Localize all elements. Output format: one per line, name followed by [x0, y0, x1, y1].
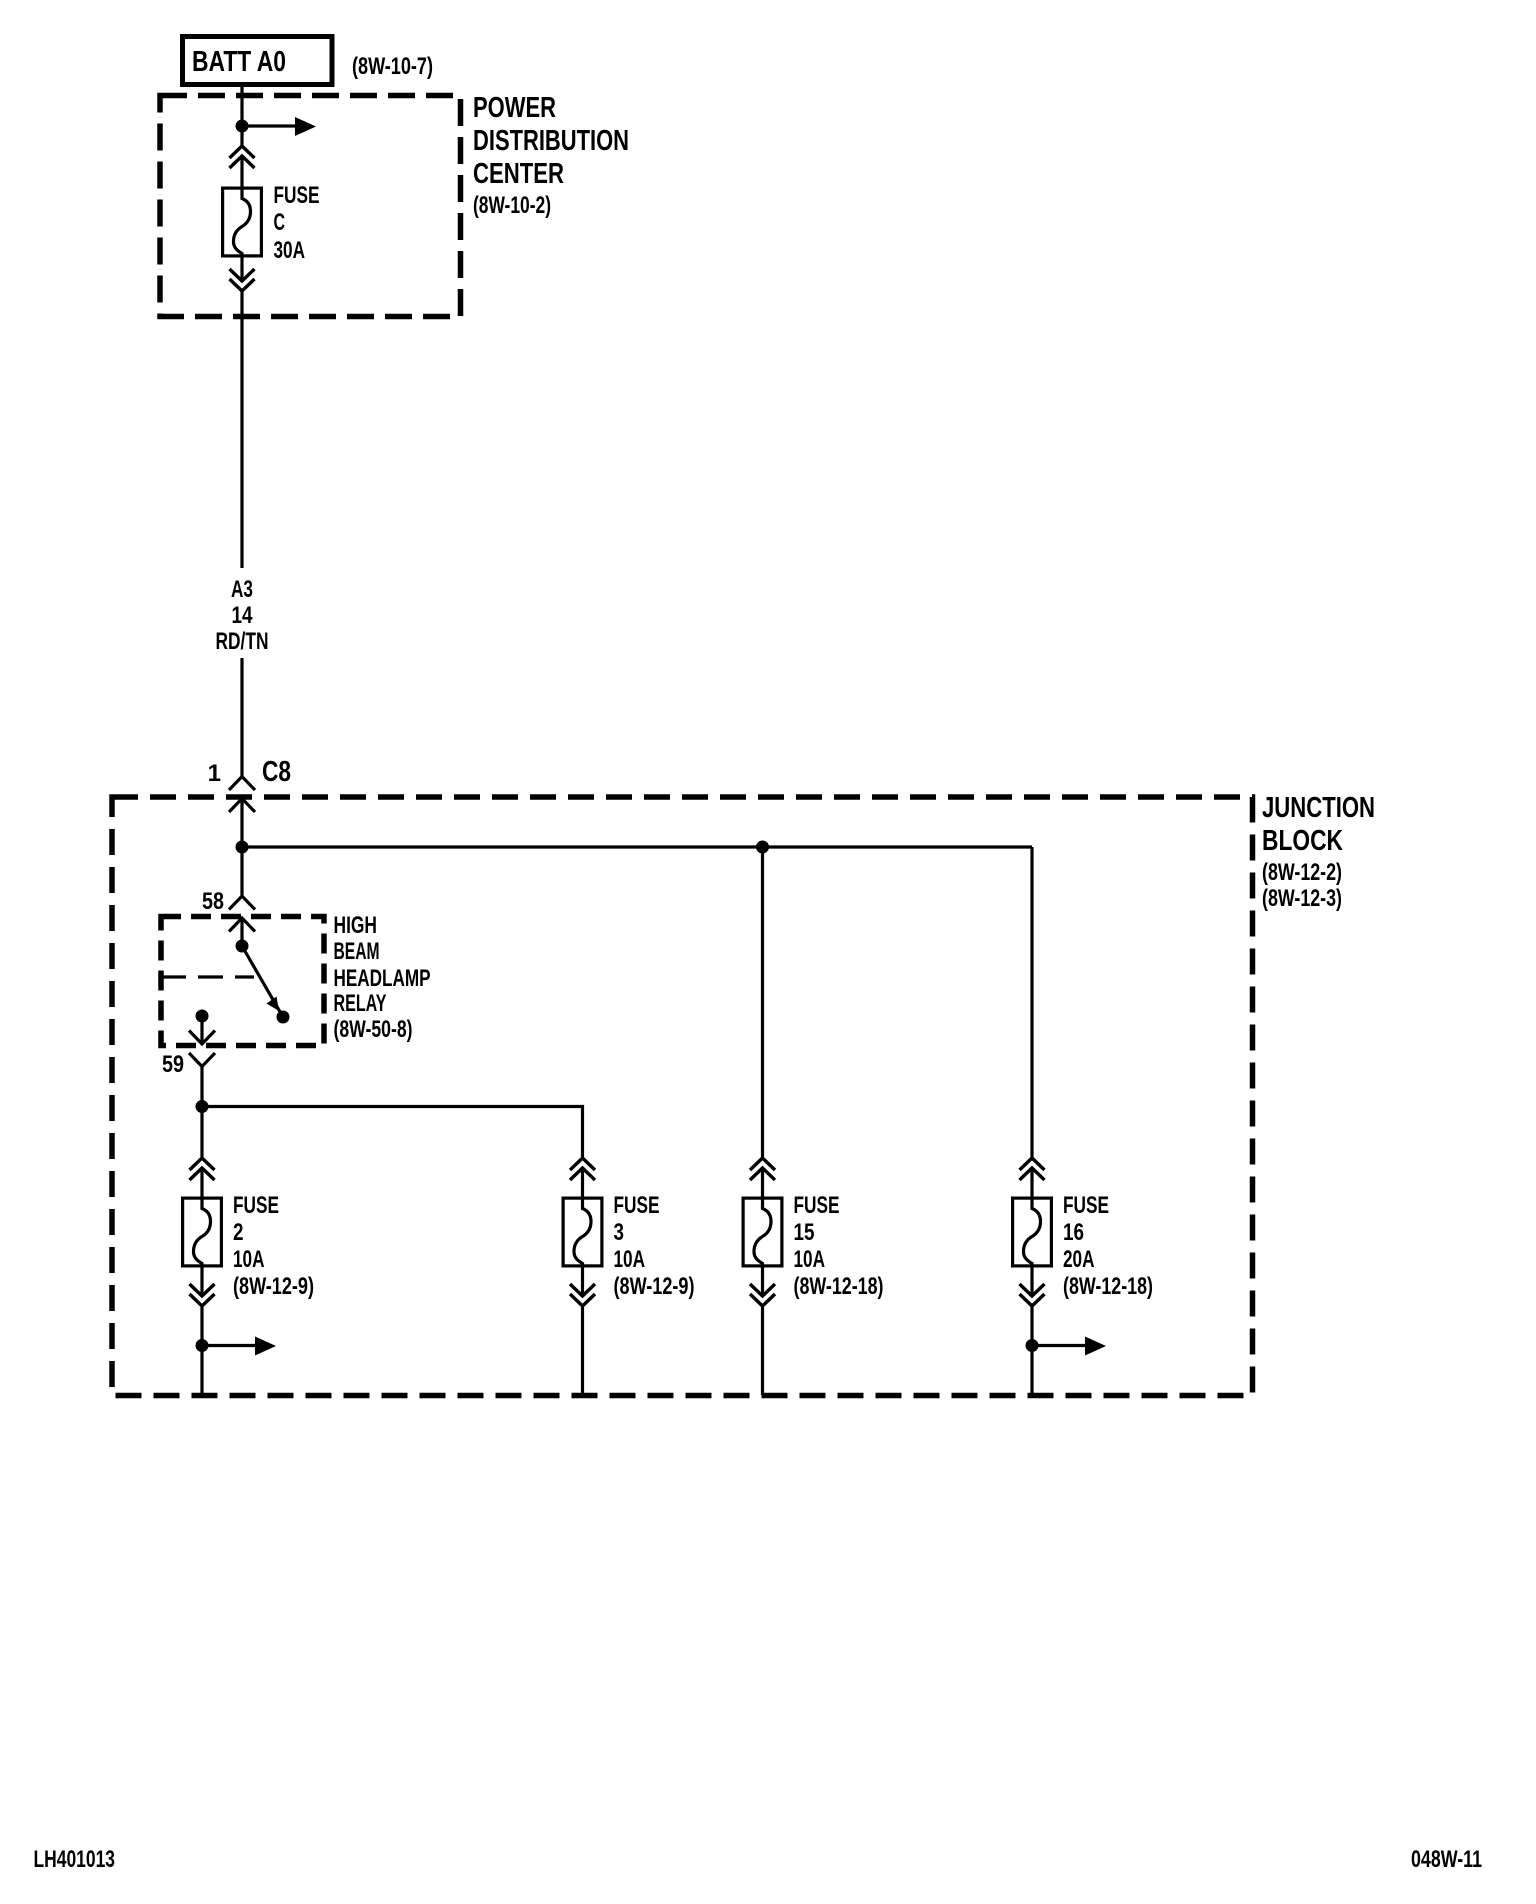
svg-text:(8W-12-2): (8W-12-2) [1262, 859, 1342, 886]
wire: C8 to splice S2 [240, 799, 243, 848]
node: splice S6 on fuse 16 output [1026, 1339, 1039, 1352]
wire: pin 59 to splice S4 [200, 1067, 203, 1107]
svg-text:FUSE: FUSE [274, 182, 320, 209]
wire: PDC output down to label gap [240, 291, 243, 568]
connector: in-line above fuse 2 [190, 1158, 215, 1180]
svg-text:LH401013: LH401013 [34, 1846, 116, 1873]
svg-text:RD/TN: RD/TN [216, 628, 269, 655]
svg-text:(8W-10-7): (8W-10-7) [352, 53, 433, 80]
svg-text:JUNCTION: JUNCTION [1262, 792, 1375, 824]
wire: bus S2 to fuse 16 drop [242, 845, 1032, 848]
svg-text:59: 59 [162, 1051, 184, 1078]
wire: fuse 3 output to junction block edge [581, 1306, 584, 1395]
svg-text:(8W-12-9): (8W-12-9) [614, 1273, 695, 1300]
node: splice S3 fuse 15 tap [756, 841, 769, 854]
relay: high beam headlamp relay box [161, 917, 324, 1046]
wire: S4 down to fuse 2 connector [200, 1107, 203, 1159]
svg-text:FUSE: FUSE [794, 1192, 840, 1219]
wire: fuse 16 to lower connector [1030, 1268, 1033, 1297]
connector: relay pin 59 [189, 1031, 215, 1067]
svg-text:(8W-12-18): (8W-12-18) [794, 1273, 884, 1300]
relay internal dashed line [161, 975, 254, 978]
svg-text:1: 1 [208, 760, 221, 787]
label FUSE 2 10A (8W-12-9) [233, 1192, 314, 1300]
wire: fuse 16 output to junction block edge [1030, 1306, 1033, 1395]
fuse 16 [1013, 1197, 1052, 1268]
wire: fuse 3 to lower connector [581, 1268, 584, 1297]
node: splice S4 [196, 1100, 209, 1113]
node: splice S2 [236, 841, 249, 854]
svg-text:(8W-12-18): (8W-12-18) [1063, 1273, 1153, 1300]
label HIGH BEAM HEADLAMP RELAY (8W-50-8) [334, 912, 431, 1043]
relay output contact [196, 1010, 209, 1023]
svg-text:RELAY: RELAY [334, 990, 387, 1017]
connector: relay pin 58 [229, 896, 255, 932]
node: splice S1 [236, 120, 249, 133]
wire: S1 feed arrow to other circuits [242, 117, 316, 136]
wire label A3 14 RD/TN [216, 576, 269, 655]
svg-text:FUSE: FUSE [614, 1192, 660, 1219]
svg-text:C8: C8 [262, 756, 291, 788]
connector: in-line below fuse 2 [190, 1284, 215, 1306]
fuse 2 [183, 1197, 222, 1268]
power distribution center box [160, 96, 461, 317]
connector: in-line above fuse C [230, 146, 255, 168]
wire: fuse 2 to lower connector [200, 1268, 203, 1297]
svg-text:14: 14 [232, 602, 254, 629]
svg-text:048W-11: 048W-11 [1411, 1846, 1482, 1873]
svg-text:(8W-12-9): (8W-12-9) [233, 1273, 314, 1300]
svg-text:10A: 10A [233, 1246, 265, 1273]
svg-text:20A: 20A [1063, 1246, 1095, 1273]
connector: in-line below fuse C [230, 269, 255, 291]
wire: connector to fuse C [240, 156, 243, 187]
wire: S2 down to relay pin 58 [240, 847, 243, 896]
fuse C [223, 187, 262, 258]
wire: connector to fuse 16 [1030, 1168, 1033, 1197]
svg-text:DISTRIBUTION: DISTRIBUTION [473, 125, 629, 157]
svg-text:HIGH: HIGH [334, 912, 378, 939]
wire: S5 feed arrow to other circuits [202, 1337, 276, 1356]
relay NO contact [277, 1011, 290, 1024]
connector: in-line above fuse 3 [570, 1158, 595, 1180]
svg-text:FUSE: FUSE [233, 1192, 279, 1219]
relay switch blade [242, 946, 283, 1017]
fuse 15 [743, 1197, 782, 1268]
battery feed box BATT A0 [183, 37, 333, 85]
wire: S3 down to fuse 15 connector [761, 847, 764, 1158]
wire: connector to fuse 2 [200, 1168, 203, 1197]
wire: fuse C to connector below [240, 258, 243, 282]
wire: pin 58 to relay common contact [240, 918, 243, 946]
label POWER DISTRIBUTION CENTER (8W-10-2) [473, 92, 629, 219]
svg-text:3: 3 [614, 1219, 625, 1246]
label FUSE 15 10A (8W-12-18) [794, 1192, 884, 1300]
wire: fuse 15 output to junction block edge [761, 1306, 764, 1395]
wire: label gap down to connector C8 [240, 658, 243, 777]
connector: in-line below fuse 3 [570, 1284, 595, 1306]
svg-text:2: 2 [233, 1219, 244, 1246]
svg-text:16: 16 [1063, 1219, 1084, 1246]
svg-text:(8W-10-2): (8W-10-2) [473, 192, 551, 219]
svg-text:C: C [274, 209, 286, 236]
connector: in-line above fuse 15 [750, 1158, 775, 1180]
svg-text:15: 15 [794, 1219, 815, 1246]
svg-text:POWER: POWER [473, 92, 556, 124]
label FUSE 16 20A (8W-12-18) [1063, 1192, 1153, 1300]
wire: bus S4 to fuse 3 drop [202, 1107, 583, 1159]
svg-text:10A: 10A [614, 1246, 646, 1273]
label JUNCTION BLOCK (8W-12-2) (8W-12-3) [1262, 792, 1375, 912]
svg-text:(8W-50-8): (8W-50-8) [334, 1016, 413, 1043]
svg-text:A3: A3 [231, 576, 253, 603]
wire: BATT A0 to splice S1 and connector above fuse C [240, 85, 243, 146]
svg-text:BATT A0: BATT A0 [192, 46, 286, 78]
label FUSE C 30A [274, 182, 320, 264]
node: splice S5 on fuse 2 output [196, 1339, 209, 1352]
svg-text:FUSE: FUSE [1063, 1192, 1109, 1219]
svg-text:BEAM: BEAM [334, 938, 380, 965]
svg-text:30A: 30A [274, 237, 306, 264]
connector: in-line below fuse 15 [750, 1284, 775, 1306]
svg-text:CENTER: CENTER [473, 158, 564, 190]
connector C8 [229, 777, 255, 813]
svg-text:(8W-12-3): (8W-12-3) [1262, 885, 1342, 912]
fuse 3 [563, 1197, 602, 1268]
svg-text:58: 58 [202, 888, 224, 915]
junction block box [112, 797, 1253, 1396]
wire: connector to fuse 3 [581, 1168, 584, 1197]
svg-text:10A: 10A [794, 1246, 826, 1273]
wire: connector to fuse 15 [761, 1168, 764, 1197]
svg-text:HEADLAMP: HEADLAMP [334, 965, 431, 992]
relay common contact [236, 940, 249, 953]
connector: in-line below fuse 16 [1020, 1284, 1045, 1306]
wire: fuse 2 output to junction block edge [200, 1306, 203, 1395]
svg-text:BLOCK: BLOCK [1262, 825, 1343, 857]
wire: bus corner down to fuse 16 connector [1030, 847, 1033, 1158]
wire: relay output contact to pin 59 arrow [200, 1016, 203, 1043]
connector: in-line above fuse 16 [1020, 1158, 1045, 1180]
wire: S6 feed arrow to other circuits [1032, 1337, 1106, 1356]
label FUSE 3 10A (8W-12-9) [614, 1192, 695, 1300]
wire: fuse 15 to lower connector [761, 1268, 764, 1297]
